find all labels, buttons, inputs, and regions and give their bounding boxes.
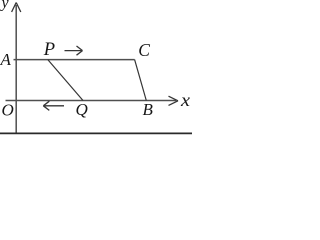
svg-text:C: C xyxy=(138,40,150,60)
svg-text:O: O xyxy=(2,101,14,120)
top line through A P C xyxy=(14,59,135,61)
svg-text:P: P xyxy=(43,40,55,60)
right direction arrow near P xyxy=(65,46,83,55)
svg-text:Q: Q xyxy=(76,100,88,119)
segment C-B xyxy=(135,60,147,101)
svg-text:x: x xyxy=(180,90,190,110)
svg-text:B: B xyxy=(143,100,154,119)
segment P-Q xyxy=(48,60,83,101)
left direction arrow near Q xyxy=(43,101,64,110)
svg-text:y: y xyxy=(0,0,10,12)
y-axis xyxy=(12,3,21,134)
bottom border line xyxy=(0,132,192,134)
x-axis xyxy=(6,96,179,105)
svg-text:A: A xyxy=(0,50,12,69)
